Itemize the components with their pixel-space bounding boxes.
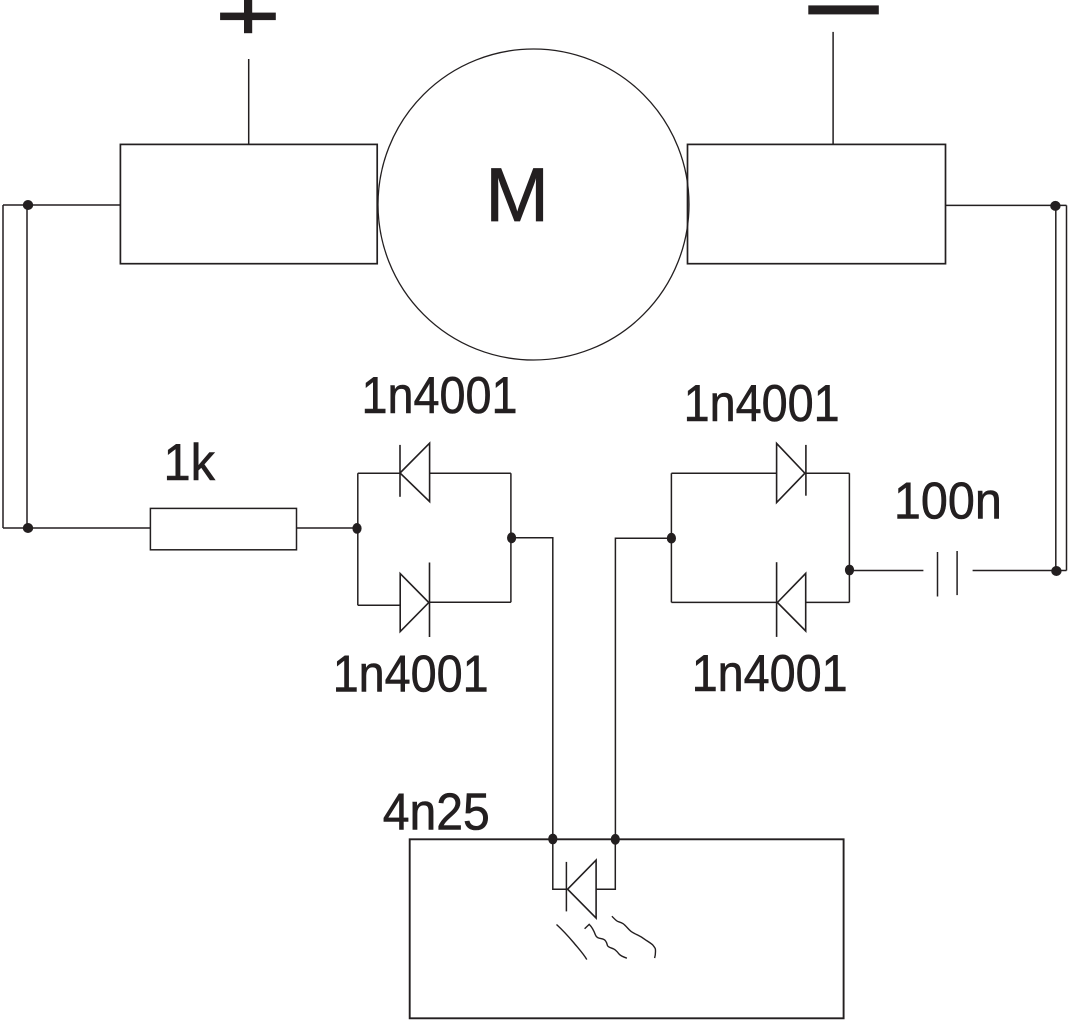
brush box left (120, 144, 377, 263)
diode pair 1 loop top wire (358, 472, 400, 474)
LED cathode bar (565, 862, 567, 912)
node A (352, 523, 361, 534)
diode D3 1n4001 (top, cathode right) (777, 443, 806, 502)
brush box right (688, 144, 946, 263)
diode pair 1 loop left edge (357, 473, 359, 605)
svg-text:4n25: 4n25 (383, 782, 490, 840)
plus terminal (220, 0, 276, 33)
node right top (1050, 201, 1060, 211)
wire minus lead (832, 32, 834, 145)
wire resistor to node A (297, 527, 358, 529)
diode D1 1n4001 (top, cathode left) (400, 443, 430, 501)
node opto left pin (548, 834, 557, 845)
wire plus lead (248, 59, 250, 144)
resistor R1 1k (150, 508, 296, 549)
wire right box to right node (946, 204, 1067, 206)
diode D2 1n4001 (bottom, cathode right) (400, 563, 429, 638)
node C (667, 533, 676, 544)
node right bottom (1051, 566, 1061, 576)
node B (507, 532, 516, 543)
capacitor C1 left lead (850, 570, 924, 572)
LED triangle (568, 860, 597, 918)
node opto right pin (611, 834, 620, 845)
diode pair 2 loop bottom wire (671, 601, 777, 603)
wire left outer vertical (2, 205, 4, 528)
diode D4 1n4001 (bottom, cathode left) (777, 562, 806, 637)
LED wire left (553, 839, 567, 889)
wire left inner vertical (26, 205, 28, 528)
svg-text:1n4001: 1n4001 (684, 374, 840, 432)
wire node B to opto left (512, 538, 553, 839)
wire right inner vertical (1055, 205, 1057, 570)
node left top (23, 200, 33, 210)
minus terminal (808, 5, 879, 14)
capacitor C1 right lead (973, 570, 1067, 572)
node D (845, 565, 854, 576)
node left bottom (23, 523, 33, 533)
diode pair 2 loop left edge (670, 473, 672, 602)
diode pair 1 loop right edge (510, 473, 512, 602)
svg-text:1n4001: 1n4001 (333, 645, 489, 703)
LED wire right (596, 839, 615, 889)
diode pair 2 loop right edge (848, 473, 850, 602)
svg-text:M: M (485, 153, 549, 238)
wire left box to left node (3, 204, 120, 206)
svg-text:1n4001: 1n4001 (692, 644, 848, 702)
light squiggle 2 (585, 924, 627, 958)
wire node C to opto right (615, 538, 671, 839)
svg-text:1n4001: 1n4001 (362, 366, 518, 424)
diode pair 1 loop bottom wire (358, 604, 400, 606)
motor M1 circle (378, 49, 689, 360)
optocoupler U1 4n25 box (410, 839, 844, 1018)
svg-text:100n: 100n (894, 471, 1002, 529)
capacitor C1 plates (937, 552, 939, 597)
light squiggle 3 (612, 916, 656, 958)
diode pair 2 loop top wire (671, 472, 776, 474)
wire left bottom to resistor (3, 527, 150, 529)
wire right outer vertical (1066, 205, 1068, 570)
light squiggle 1 (557, 925, 587, 960)
svg-text:1k: 1k (164, 433, 216, 491)
